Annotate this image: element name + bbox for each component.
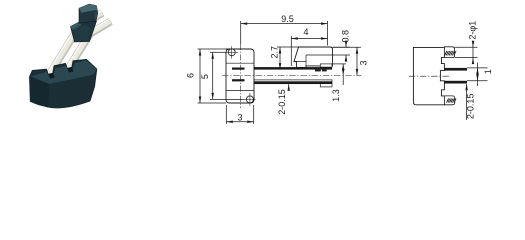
horizontal centerline through views bbox=[222, 75, 362, 77]
photo: hook clip jaw bbox=[71, 21, 97, 42]
dimension 5: extension lines bbox=[210, 51, 226, 53]
right view: top tab hatch (hole section) bbox=[445, 51, 457, 56]
photo: hook block top facet bbox=[79, 4, 97, 13]
svg-text:9.5: 9.5 bbox=[281, 14, 294, 24]
dimension 1.3: line and arrows bbox=[342, 64, 344, 85]
svg-text:4: 4 bbox=[303, 27, 308, 37]
dimension 3 right: line and arrows bbox=[356, 47, 358, 75]
photo: housing right face shade bbox=[48, 75, 94, 108]
svg-text:6: 6 bbox=[186, 73, 196, 78]
right view: bottom mounting tab bbox=[444, 96, 454, 105]
dimension 0.8: extension lines bbox=[333, 46, 351, 48]
dimension 1: line and arrows bbox=[477, 63, 479, 87]
front view: mounting hole top-left bbox=[228, 49, 235, 56]
right view: horizontal centerline bbox=[409, 75, 451, 77]
side view: bottom lead outline bbox=[254, 80, 332, 84]
dimension 2-phi1: extension lines bbox=[455, 46, 478, 48]
side view: arm underside line bbox=[294, 61, 306, 63]
dimension 3 bottom: line and arrows bbox=[226, 121, 253, 123]
svg-text:5: 5 bbox=[200, 74, 210, 79]
right view: bottom pin (dark) bbox=[444, 81, 467, 84]
dimension 1: extension lines bbox=[467, 67, 488, 69]
dimension 6: line and arrows bbox=[199, 49, 201, 103]
right view: bottom tab hatch (hole section) bbox=[447, 99, 457, 103]
photo: dark housing body bbox=[30, 59, 97, 108]
photo: white lead A (tip segment past clip) bbox=[77, 10, 104, 31]
front view: mounting hole bottom-right bbox=[246, 96, 253, 103]
photo: white lead B (tip segment past clip) bbox=[88, 18, 113, 37]
right view: body outline bbox=[413, 47, 444, 104]
dimension 4: extension line bbox=[290, 36, 292, 66]
photo: slot shadows on top face bbox=[48, 73, 55, 79]
photo: white lead A (left pin, lower segment) bbox=[45, 23, 83, 78]
photo: hook block right facet bbox=[94, 10, 98, 21]
dimension 3 bottom: extension lines bbox=[225, 105, 227, 124]
side view: bottom lead end step bbox=[320, 84, 332, 87]
dimension 9.5: line and arrows bbox=[241, 23, 328, 25]
side view: internal vertical line bbox=[305, 55, 307, 66]
photo: housing top face bbox=[31, 60, 97, 84]
side view: internal step line bbox=[306, 54, 333, 56]
dimension 4: line and arrows bbox=[291, 38, 327, 40]
dimension 2-phi1: line and arrows bbox=[472, 43, 474, 64]
side view: housing hook profile bbox=[294, 47, 333, 67]
svg-text:2-φ1: 2-φ1 bbox=[467, 21, 477, 40]
front view: lead slot upper bbox=[232, 68, 245, 70]
dimension 6: extension lines bbox=[198, 48, 227, 50]
svg-text:3: 3 bbox=[359, 60, 369, 65]
svg-text:2-0.15: 2-0.15 bbox=[465, 94, 475, 120]
photo: white lead B (left pin, lower segment) bbox=[63, 30, 94, 74]
front view: internal line upper bbox=[226, 62, 254, 64]
svg-text:0.8: 0.8 bbox=[341, 30, 351, 43]
front view: housing outline bbox=[226, 49, 254, 103]
side view: bottom lead (dark) bbox=[254, 81, 332, 83]
dimension 5: line and arrows bbox=[212, 52, 214, 99]
photo: hook clip block bbox=[79, 4, 98, 23]
photo: lead edge shading bbox=[50, 27, 83, 79]
right view: top mounting tab bbox=[444, 47, 454, 58]
front view: vertical centerline bbox=[239, 44, 241, 108]
dimension 2.7: extension line bbox=[277, 46, 299, 48]
front view: lead slot lower bbox=[232, 79, 245, 81]
front view: hole cross lines bbox=[226, 51, 238, 53]
side view: top lead end step bbox=[320, 64, 332, 67]
dimension 0.8: outside arrows bbox=[345, 41, 347, 48]
photo: hook jaw top facet bbox=[71, 22, 82, 30]
side view: pegs under lead bbox=[315, 70, 321, 72]
side view: top lead (dark) bbox=[254, 67, 332, 70]
dimension 9.5: extension lines bbox=[240, 21, 242, 44]
front view: internal line lower bbox=[226, 90, 254, 92]
svg-text:2.7: 2.7 bbox=[270, 46, 280, 59]
photo: hook jaw shade bbox=[73, 25, 90, 41]
label 2-0.15 right: leader bbox=[466, 84, 468, 120]
svg-text:3: 3 bbox=[237, 113, 242, 123]
photo: lead highlights bbox=[46, 23, 79, 75]
photo: housing front face bbox=[30, 77, 50, 107]
front view: hole cross lines bbox=[244, 98, 256, 100]
label 2-0.15 middle: leader arrow bbox=[288, 84, 290, 90]
right view: top pin (dark) bbox=[444, 68, 467, 71]
svg-text:1.3: 1.3 bbox=[331, 89, 341, 102]
dimension 1.3: extension line bbox=[332, 63, 346, 65]
svg-text:1: 1 bbox=[483, 69, 493, 74]
dimension 2.7: line and arrows bbox=[279, 47, 281, 70]
svg-text:2-0.15: 2-0.15 bbox=[277, 89, 287, 115]
dimension 3 right: extension line bbox=[333, 46, 362, 48]
